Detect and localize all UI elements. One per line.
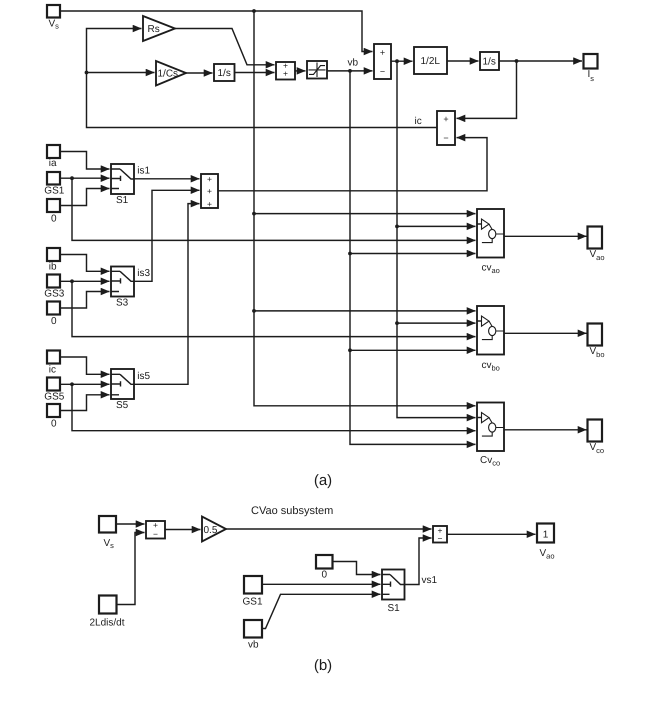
wire vs bus vertical x254 down to cv_co input1 <box>254 11 476 406</box>
input port zero 2 <box>47 302 60 328</box>
wire zero to switch S1 input3 <box>60 189 110 206</box>
svg-text:Vao: Vao <box>540 548 555 561</box>
svg-text:−: − <box>380 67 385 77</box>
input port GS5 <box>44 378 64 403</box>
wire 1/2L output to integrator 1/s 2 <box>447 60 479 62</box>
node Is feedback junction <box>515 59 519 63</box>
wire junction to gain 1/Cs <box>87 72 155 74</box>
svg-text:1/Cs: 1/Cs <box>158 69 179 80</box>
svg-text:Cvco: Cvco <box>480 455 500 468</box>
svg-text:Rs: Rs <box>148 24 160 35</box>
node GS1 branch junction <box>70 176 74 180</box>
input port zero 1 <box>47 199 60 225</box>
gain 1/2L <box>414 47 447 74</box>
svg-text:S1: S1 <box>116 195 129 206</box>
svg-text:Vs: Vs <box>49 19 60 31</box>
svg-text:0: 0 <box>51 419 57 430</box>
wire GS1 to switch S1 input2 <box>60 177 110 179</box>
wire GS1 to switch S1b input2 <box>262 583 381 585</box>
wire 2Ldis/dt up to sum U5 minus input <box>117 533 145 605</box>
wire GS3 down and right to cv_bo input3 <box>72 281 476 336</box>
gain Rs <box>143 16 175 41</box>
wire vo vertical x397 down to cv_co input2 <box>397 61 476 417</box>
svg-text:2Ldis/dt: 2Ldis/dt <box>90 618 125 629</box>
wire U2 output to gain 1/2L <box>391 60 413 62</box>
wire GS1 down and right to cv_ao input3 <box>72 178 476 240</box>
wire vb to cv_ao input4 <box>350 253 476 255</box>
input port GS1 b <box>243 576 263 608</box>
wire vb vertical x350 down to cv_co input4 <box>350 71 476 445</box>
outport I_s <box>584 54 598 83</box>
svg-text:vb: vb <box>348 58 359 69</box>
outport 1 v_ao <box>537 524 555 561</box>
wire is5 up to sum U4 input3 <box>134 204 200 385</box>
svg-text:+: + <box>380 48 385 58</box>
svg-text:GS3: GS3 <box>44 289 64 300</box>
wire sum U4 output up to sum U3 minus input <box>218 138 487 191</box>
sum U2 <box>374 44 391 79</box>
svg-text:Is: Is <box>588 69 595 83</box>
node vs branch junction <box>252 9 256 13</box>
svg-text:Vco: Vco <box>590 442 605 455</box>
wire ia to switch S1 input1 <box>60 152 110 170</box>
wire zero to switch S1b input1 <box>333 562 381 575</box>
integrator 1/s <box>214 64 235 81</box>
wire vo to cv_ao input2 <box>397 225 476 227</box>
svg-text:S5: S5 <box>116 400 129 411</box>
wire U1 output to saturation <box>295 70 306 72</box>
svg-text:Vs: Vs <box>104 538 115 550</box>
input port v_s <box>47 5 60 31</box>
svg-text:1/s: 1/s <box>483 57 496 68</box>
input port GS1 <box>44 172 64 197</box>
subsystem cv_bo <box>477 306 504 373</box>
sum U3 ic <box>437 111 455 145</box>
node cv_ao input2 junction <box>395 225 399 229</box>
wire U5 output to gain 0.5 <box>165 529 201 531</box>
wire U6 output to outport 1 v_ao <box>447 533 536 535</box>
wire saturation output to sum U2 minus input, node vb <box>327 70 373 72</box>
wire vs bus to cv_bo input1 <box>254 310 476 312</box>
wire ic feedback from U3 output to Rs and 1/Cs <box>87 29 438 128</box>
svg-text:GS1: GS1 <box>44 186 64 197</box>
svg-text:cvao: cvao <box>482 263 500 276</box>
wire ib to switch S3 input1 <box>60 255 110 272</box>
svg-text:CVao subsystem: CVao subsystem <box>251 505 333 517</box>
input port ib <box>47 248 60 273</box>
sum U1 <box>276 60 295 79</box>
node cv_bo input1 junction <box>252 309 256 313</box>
svg-text:S1: S1 <box>388 603 401 614</box>
node cv_bo input2 junction <box>395 321 399 325</box>
svg-text:−: − <box>153 529 158 539</box>
svg-text:(b): (b) <box>314 657 332 674</box>
subsystem cv_ao <box>477 209 504 275</box>
svg-text:vs1: vs1 <box>422 575 438 586</box>
node GS3 branch junction <box>70 279 74 283</box>
wire vb to cv_bo input4 <box>350 349 476 351</box>
outport v_bo <box>588 324 605 360</box>
wire v_s to sum U2 plus input <box>60 11 373 52</box>
subsystem Cv_co <box>477 403 504 468</box>
wire is1 to sum U4 input1 <box>134 178 200 180</box>
svg-text:0: 0 <box>51 214 57 225</box>
svg-text:+: + <box>207 186 212 196</box>
wire zero to switch S5 input3 <box>60 395 110 411</box>
svg-text:(a): (a) <box>314 472 332 489</box>
wire 0.5 output to sum U6 plus input <box>226 528 432 530</box>
saturation block <box>307 61 327 79</box>
switch S1 <box>111 164 151 206</box>
svg-text:+: + <box>283 68 288 78</box>
svg-text:1: 1 <box>543 530 549 541</box>
svg-text:Vao: Vao <box>590 249 605 262</box>
svg-text:0: 0 <box>322 570 328 581</box>
node vo branch junction <box>395 59 399 63</box>
sum U6 <box>433 525 447 543</box>
input port ia <box>47 145 60 169</box>
svg-text:is1: is1 <box>137 165 150 176</box>
svg-text:S3: S3 <box>116 297 129 308</box>
wire vb to switch S1b input3 <box>262 594 381 628</box>
svg-text:+: + <box>207 199 212 209</box>
wire v_s to sum U5 plus input <box>116 523 145 525</box>
sum U5 <box>146 520 165 539</box>
wire zero to switch S3 input3 <box>60 292 110 309</box>
wire Cv_co output to outport v_co <box>504 429 587 431</box>
node cv_bo input4 junction <box>348 348 352 352</box>
svg-text:ic: ic <box>415 116 422 127</box>
svg-text:+: + <box>443 114 448 124</box>
svg-text:vb: vb <box>248 640 259 651</box>
input port zero b <box>316 555 333 581</box>
wire ic to switch S5 input1 <box>60 357 110 374</box>
input port vb b <box>244 620 262 651</box>
svg-text:ia: ia <box>49 158 57 169</box>
svg-text:GS5: GS5 <box>44 392 64 403</box>
input port zero 3 <box>47 404 60 430</box>
switch S5 <box>111 369 151 411</box>
wire vo to cv_bo input2 <box>397 322 476 324</box>
outport v_ao <box>588 227 605 263</box>
outport v_co <box>588 420 605 456</box>
svg-text:1/2L: 1/2L <box>421 56 441 67</box>
input port ic <box>47 351 60 376</box>
svg-text:1/s: 1/s <box>218 68 231 79</box>
svg-text:−: − <box>438 533 443 543</box>
gain 0.5 <box>202 517 226 542</box>
svg-text:GS1: GS1 <box>243 597 263 608</box>
svg-text:is5: is5 <box>137 371 150 382</box>
svg-text:0.5: 0.5 <box>204 525 218 536</box>
node 1/Cs branch junction <box>85 71 89 75</box>
wire vs bus to cv_ao input1 <box>254 213 476 215</box>
wire vs1 up to sum U6 minus input <box>405 538 432 585</box>
wire GS5 down and right to cv_co input3 <box>72 384 476 430</box>
node GS5 branch junction <box>70 382 74 386</box>
integrator 1/s 2 <box>480 52 499 70</box>
input port GS3 <box>44 275 64 300</box>
node cv_ao input1 junction <box>252 212 256 216</box>
input port 2Ldis/dt <box>90 596 125 629</box>
svg-text:cvbo: cvbo <box>482 360 500 373</box>
switch S1 b <box>382 570 405 615</box>
wire Is feedback down to sum U3 plus input <box>457 61 517 118</box>
wire 1/s output to sum U1 input2 <box>235 72 275 74</box>
wire GS5 to switch S5 input2 <box>60 383 110 385</box>
node cv_ao input4 junction <box>348 252 352 256</box>
svg-text:Vbo: Vbo <box>590 346 605 359</box>
wire is3 up to sum U4 input2 <box>134 190 200 281</box>
wire Rs output to sum U1 input1 <box>175 29 275 65</box>
switch S3 <box>111 267 151 309</box>
svg-text:−: − <box>443 133 448 143</box>
input port v_s b <box>99 516 116 550</box>
svg-text:0: 0 <box>51 316 57 327</box>
node vb junction <box>348 69 352 73</box>
svg-text:ic: ic <box>49 365 56 376</box>
wire 1/s 2 output to outport I_s <box>499 60 582 62</box>
sum U4 <box>201 174 218 209</box>
wire 1/Cs output to integrator 1/s <box>186 72 213 74</box>
wire cv_bo output to outport v_bo <box>504 332 587 334</box>
svg-text:ib: ib <box>49 262 57 273</box>
wire GS3 to switch S3 input2 <box>60 280 110 282</box>
svg-text:+: + <box>207 174 212 184</box>
gain 1/Cs <box>156 61 186 86</box>
svg-text:is3: is3 <box>137 268 150 279</box>
wire cv_ao output to outport v_ao <box>504 235 587 237</box>
